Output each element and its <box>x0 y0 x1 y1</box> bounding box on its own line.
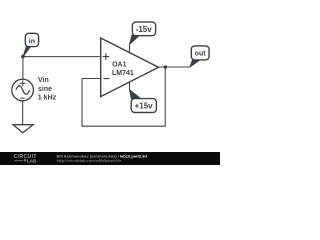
svg-text:http://circuitlab.com/c49t3cbn: http://circuitlab.com/c49t3cbnv45r <box>57 158 122 163</box>
svg-text:1 kHz: 1 kHz <box>38 95 57 102</box>
svg-text:sine: sine <box>38 86 52 93</box>
svg-text:+15v: +15v <box>135 102 154 111</box>
svg-text:-15v: -15v <box>136 25 153 34</box>
svg-text:LAB: LAB <box>27 158 37 163</box>
svg-text:Vin: Vin <box>38 77 49 84</box>
svg-text:in: in <box>29 38 35 45</box>
svg-text:OA1: OA1 <box>112 61 127 68</box>
svg-text:out: out <box>195 51 207 58</box>
svg-text:LM741: LM741 <box>112 70 134 77</box>
